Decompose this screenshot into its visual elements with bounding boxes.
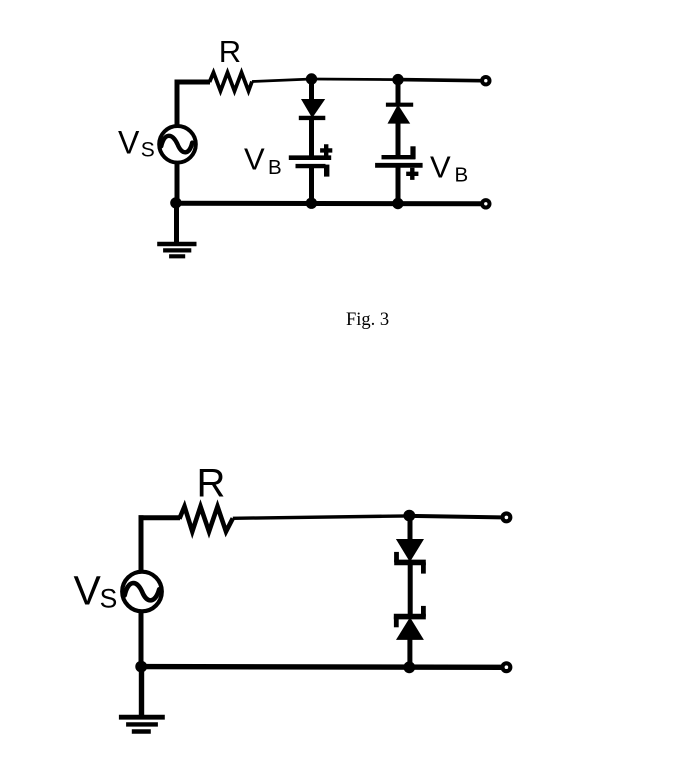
- source VS sine wave: [161, 136, 192, 153]
- bottom rail wire: [176, 201, 481, 207]
- bottom rail wire: [141, 664, 501, 670]
- node C junction dot: [403, 510, 415, 522]
- label R: [219, 34, 241, 69]
- source VS sine wave: [125, 583, 160, 600]
- ground: [157, 244, 196, 256]
- caption Fig. 3: [346, 310, 389, 330]
- battery VB2 plus sign: [406, 168, 418, 180]
- svg-text:B: B: [455, 164, 469, 187]
- wire node A down to diode D1: [309, 79, 314, 101]
- wire node C to output terminal: [409, 516, 501, 518]
- junction dot branch bottom: [403, 661, 415, 673]
- wire D2 to battery VB2: [396, 122, 401, 158]
- wire battery VB2 to bottom rail: [396, 165, 401, 204]
- ground: [119, 717, 165, 731]
- label VS: [74, 568, 118, 614]
- diode D1 (pointing down): [299, 99, 326, 118]
- wire source bottom to ground node: [139, 611, 144, 668]
- wire Z2 to bottom rail: [407, 638, 412, 668]
- wire source bottom to ground node: [175, 161, 180, 204]
- battery VB1 plus sign: [320, 144, 332, 156]
- wire D1 to battery VB1: [309, 117, 314, 158]
- resistor R: [210, 73, 253, 92]
- output terminal bottom: [480, 198, 491, 209]
- svg-text:R: R: [197, 462, 226, 506]
- svg-text:V: V: [74, 568, 102, 614]
- diode D2 (pointing up): [386, 105, 413, 124]
- source VS circle: [122, 572, 162, 612]
- battery VB1 minus tick: [324, 165, 329, 177]
- wire left vertical (corner down to source top): [139, 515, 144, 572]
- svg-text:V: V: [244, 142, 265, 177]
- svg-text:S: S: [141, 139, 155, 162]
- label VB right: [430, 150, 468, 187]
- label VB left: [244, 142, 282, 179]
- wire top-left horizontal (corner to resistor): [139, 515, 181, 520]
- battery VB1: [289, 158, 331, 166]
- wire Z1 to Z2: [408, 560, 413, 616]
- wire node B down to diode D2: [396, 80, 401, 103]
- resistor R: [179, 507, 232, 532]
- battery VB2 minus tick: [410, 146, 415, 159]
- wire ground node to ground symbol: [174, 203, 179, 243]
- node A junction dot: [306, 73, 317, 84]
- label R: [197, 462, 226, 506]
- label VS: [118, 124, 155, 161]
- wire node A to node B: [312, 78, 399, 81]
- ground node junction dot: [170, 197, 181, 208]
- zener Z1 (pointing down): [394, 539, 426, 574]
- svg-text:R: R: [219, 34, 241, 69]
- wire resistor to node A: [252, 79, 312, 82]
- svg-text:S: S: [100, 583, 118, 613]
- svg-text:V: V: [430, 150, 451, 185]
- ground node junction dot: [135, 661, 147, 673]
- junction dot branch2 bottom: [392, 198, 403, 209]
- wire ground node to ground symbol: [139, 667, 144, 716]
- output terminal top: [480, 75, 491, 86]
- zener Z2 (pointing up): [394, 606, 426, 640]
- output terminal bottom: [500, 661, 512, 673]
- wire node C down to zener Z1: [408, 516, 413, 541]
- battery VB2: [375, 157, 423, 165]
- svg-text:Fig. 3: Fig. 3: [346, 310, 389, 330]
- svg-text:B: B: [268, 156, 282, 179]
- wire node B to output terminal: [398, 80, 481, 81]
- node B junction dot: [392, 74, 403, 85]
- wire left vertical (corner down to source top): [175, 80, 180, 126]
- wire resistor to node C: [233, 516, 409, 518]
- junction dot branch1 bottom: [306, 198, 317, 209]
- wire battery VB1 to bottom rail: [309, 166, 314, 204]
- output terminal top: [500, 511, 512, 523]
- svg-text:V: V: [118, 124, 140, 160]
- source VS circle: [159, 126, 196, 163]
- wire top-left horizontal (corner to resistor): [175, 80, 211, 85]
